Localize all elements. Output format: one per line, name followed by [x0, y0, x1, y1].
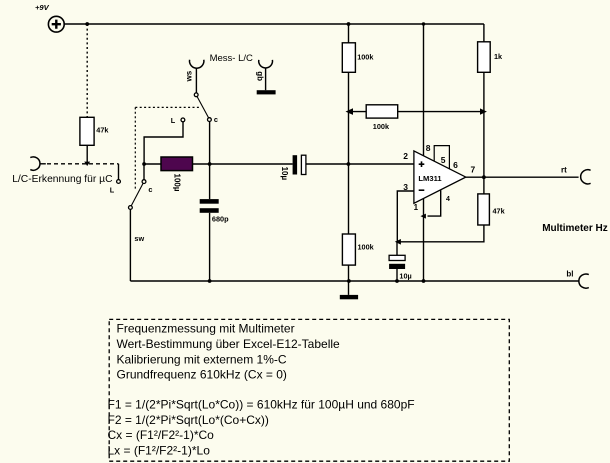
wire L terminal to tank left node: [144, 122, 183, 164]
svg-text:Lx = (F1²/F2²-1)*Lo: Lx = (F1²/F2²-1)*Lo: [108, 444, 211, 458]
svg-text:100k: 100k: [357, 52, 374, 61]
node pin1 rail: [422, 279, 426, 283]
switch S1 contact c: [208, 118, 212, 122]
wire sw switch to bottom rail: [129, 209, 131, 281]
svg-text:Mess- L/C: Mess- L/C: [210, 53, 253, 64]
inductor L1 100µ: [161, 157, 193, 171]
svg-text:Grundfrequenz 610kHz (Cx = 0): Grundfrequenz 610kHz (Cx = 0): [117, 368, 287, 382]
op-amp U1 LM311: [414, 151, 466, 203]
junction arrow left at divider: [346, 108, 354, 115]
note text block A: [117, 322, 341, 382]
node 680p rail: [208, 279, 212, 283]
resistor R5 100k (bottom): [342, 234, 355, 265]
plus input mark: [419, 161, 425, 167]
wire 100k down the divider column: [348, 72, 350, 234]
wire pin4 down: [428, 190, 441, 216]
svg-text:Frequenzmessung mit Multimeter: Frequenzmessung mit Multimeter: [117, 322, 295, 336]
switch S2 arm: [131, 183, 143, 206]
svg-text:10µ: 10µ: [280, 167, 289, 181]
svg-text:100µ: 100µ: [173, 174, 182, 192]
capacitor C2 10µ coupling (polarized): [293, 155, 298, 174]
wire coupling cap to pin2: [306, 163, 414, 165]
resistor R4 1k: [478, 42, 491, 73]
node tank left: [142, 162, 146, 166]
svg-text:1: 1: [414, 203, 419, 212]
node output / 47k: [482, 175, 486, 179]
svg-text:Multimeter Hz: Multimeter Hz: [542, 223, 608, 234]
svg-text:ws: ws: [184, 70, 193, 82]
connector rt: [581, 170, 591, 184]
wire tank node down to switch S2 contact: [143, 164, 145, 180]
junction arrow down at dashed line: [84, 162, 90, 166]
svg-text:c: c: [214, 115, 218, 124]
note box dashed border: [109, 319, 509, 461]
svg-text:L: L: [110, 185, 115, 194]
node tank right: [208, 162, 212, 166]
svg-text:Cx = (F1²/F2²-1)*Co: Cx = (F1²/F2²-1)*Co: [108, 428, 215, 442]
svg-text:680p: 680p: [212, 215, 229, 224]
ground (gb): [257, 90, 276, 94]
svg-text:47k: 47k: [96, 126, 109, 135]
switch S1 pivot: [194, 93, 198, 97]
ground (main): [340, 295, 358, 299]
wire gb to ground: [265, 68, 267, 91]
wire tank node to 680p: [209, 164, 211, 199]
svg-text:rt: rt: [561, 166, 567, 175]
wire pin3 feedback: [397, 191, 414, 242]
wire top rail corner to 1k: [483, 24, 485, 42]
svg-text:c: c: [148, 185, 152, 194]
wire 680p to bottom rail: [209, 213, 211, 281]
svg-text:100k: 100k: [358, 243, 375, 252]
svg-text:bl: bl: [566, 270, 573, 279]
switch S1 arm: [197, 96, 209, 118]
node C3 rail: [395, 279, 399, 283]
node divider mid: [347, 162, 351, 166]
svg-text:1k: 1k: [494, 52, 503, 61]
capacitor C1 680p: [200, 199, 219, 204]
wire feedback node to C3: [396, 242, 398, 256]
svg-text:6: 6: [453, 160, 458, 170]
wire 1k column down to output node: [483, 72, 485, 194]
svg-text:Wert-Bestimmung über Excel-E12: Wert-Bestimmung über Excel-E12-Tabelle: [117, 337, 341, 351]
switch S2 contact c: [142, 180, 146, 184]
wire bottom rail: [130, 280, 578, 282]
terminal circle L (sense): [117, 180, 121, 184]
connector µC (left, open arc): [30, 157, 40, 170]
resistor R2 100k (top): [342, 43, 355, 73]
junction arrow left at feedback corner: [395, 239, 401, 245]
wire 47k bottom: [86, 145, 88, 162]
wire dotted supply to 47k: [86, 24, 88, 117]
svg-text:L/C-Erkennung für µC: L/C-Erkennung für µC: [12, 174, 113, 185]
svg-text:gb: gb: [255, 71, 264, 81]
svg-text:F1 = 1/(2*Pi*Sqrt(Lo*Co)) = 61: F1 = 1/(2*Pi*Sqrt(Lo*Co)) = 610kHz für 1…: [108, 397, 415, 411]
svg-text:8: 8: [426, 143, 431, 153]
node pin8 column at top rail: [422, 22, 425, 25]
wire dashed L/C sense: [40, 163, 46, 165]
wire dashed L/C sense (dashes): [47, 163, 119, 165]
resistor R6 47k (right): [478, 194, 490, 225]
power source B1: [48, 16, 64, 32]
minus input mark: [419, 189, 425, 191]
connector ws (arc opening up): [190, 60, 204, 68]
wire feedback horizontal: [399, 225, 484, 242]
wire R3 right to 1k column: [398, 111, 481, 113]
wire arrow to R3: [349, 111, 366, 113]
wire ws to switch: [195, 68, 197, 93]
wire drop to L terminal: [118, 164, 120, 180]
svg-text:5: 5: [441, 155, 446, 165]
svg-text:F2 = 1/(2*Pi*Sqrt(Lo*(Co+Cx)): F2 = 1/(2*Pi*Sqrt(Lo*(Co+Cx)): [108, 413, 269, 427]
wire top rail +9V: [64, 23, 484, 25]
svg-text:10µ: 10µ: [399, 271, 411, 280]
svg-text:47k: 47k: [493, 206, 506, 215]
wire C3 to rail: [396, 269, 398, 281]
wire top to 100k: [348, 24, 350, 43]
svg-text:4: 4: [446, 196, 450, 203]
svg-text:L: L: [171, 116, 176, 125]
svg-text:2: 2: [403, 151, 408, 161]
note text block B: [108, 397, 415, 457]
svg-text:Kalibrierung mit externem 1%-C: Kalibrierung mit externem 1%-C: [117, 352, 287, 366]
resistor R1 47k (left): [80, 117, 94, 145]
balance bracket pins 5/6: [434, 146, 449, 169]
resistor R3 100k (horizontal): [366, 105, 398, 118]
dashed mechanical link (switch coupling) top: [135, 106, 199, 108]
node ground rail: [347, 279, 351, 283]
dashed mechanical link left: [134, 107, 136, 190]
connector bl: [579, 274, 589, 288]
svg-text:100k: 100k: [373, 122, 390, 131]
terminal circle L: [181, 118, 185, 122]
junction arrow left pin1/pin4: [420, 214, 426, 219]
junction arrow right at 1k column: [480, 108, 487, 114]
svg-text:7: 7: [471, 164, 476, 174]
svg-text:+9V: +9V: [35, 3, 50, 12]
wire c contact to tank node: [209, 122, 211, 165]
node top-left junction: [85, 22, 89, 26]
wire 100k bottom to rail: [348, 265, 350, 295]
wire pin8 column: [423, 24, 425, 156]
wire output pin7: [466, 176, 579, 178]
connector gb (arc opening up): [259, 60, 273, 68]
svg-text:sw: sw: [134, 234, 144, 243]
wire pin1 down: [423, 198, 425, 281]
svg-text:LM311: LM311: [418, 174, 442, 183]
switch S2 pivot: [129, 206, 133, 210]
node top 100k: [347, 22, 351, 26]
capacitor C3 10µ (decoupling, polarized): [389, 255, 405, 260]
wire tank node to coupling cap: [144, 163, 293, 165]
